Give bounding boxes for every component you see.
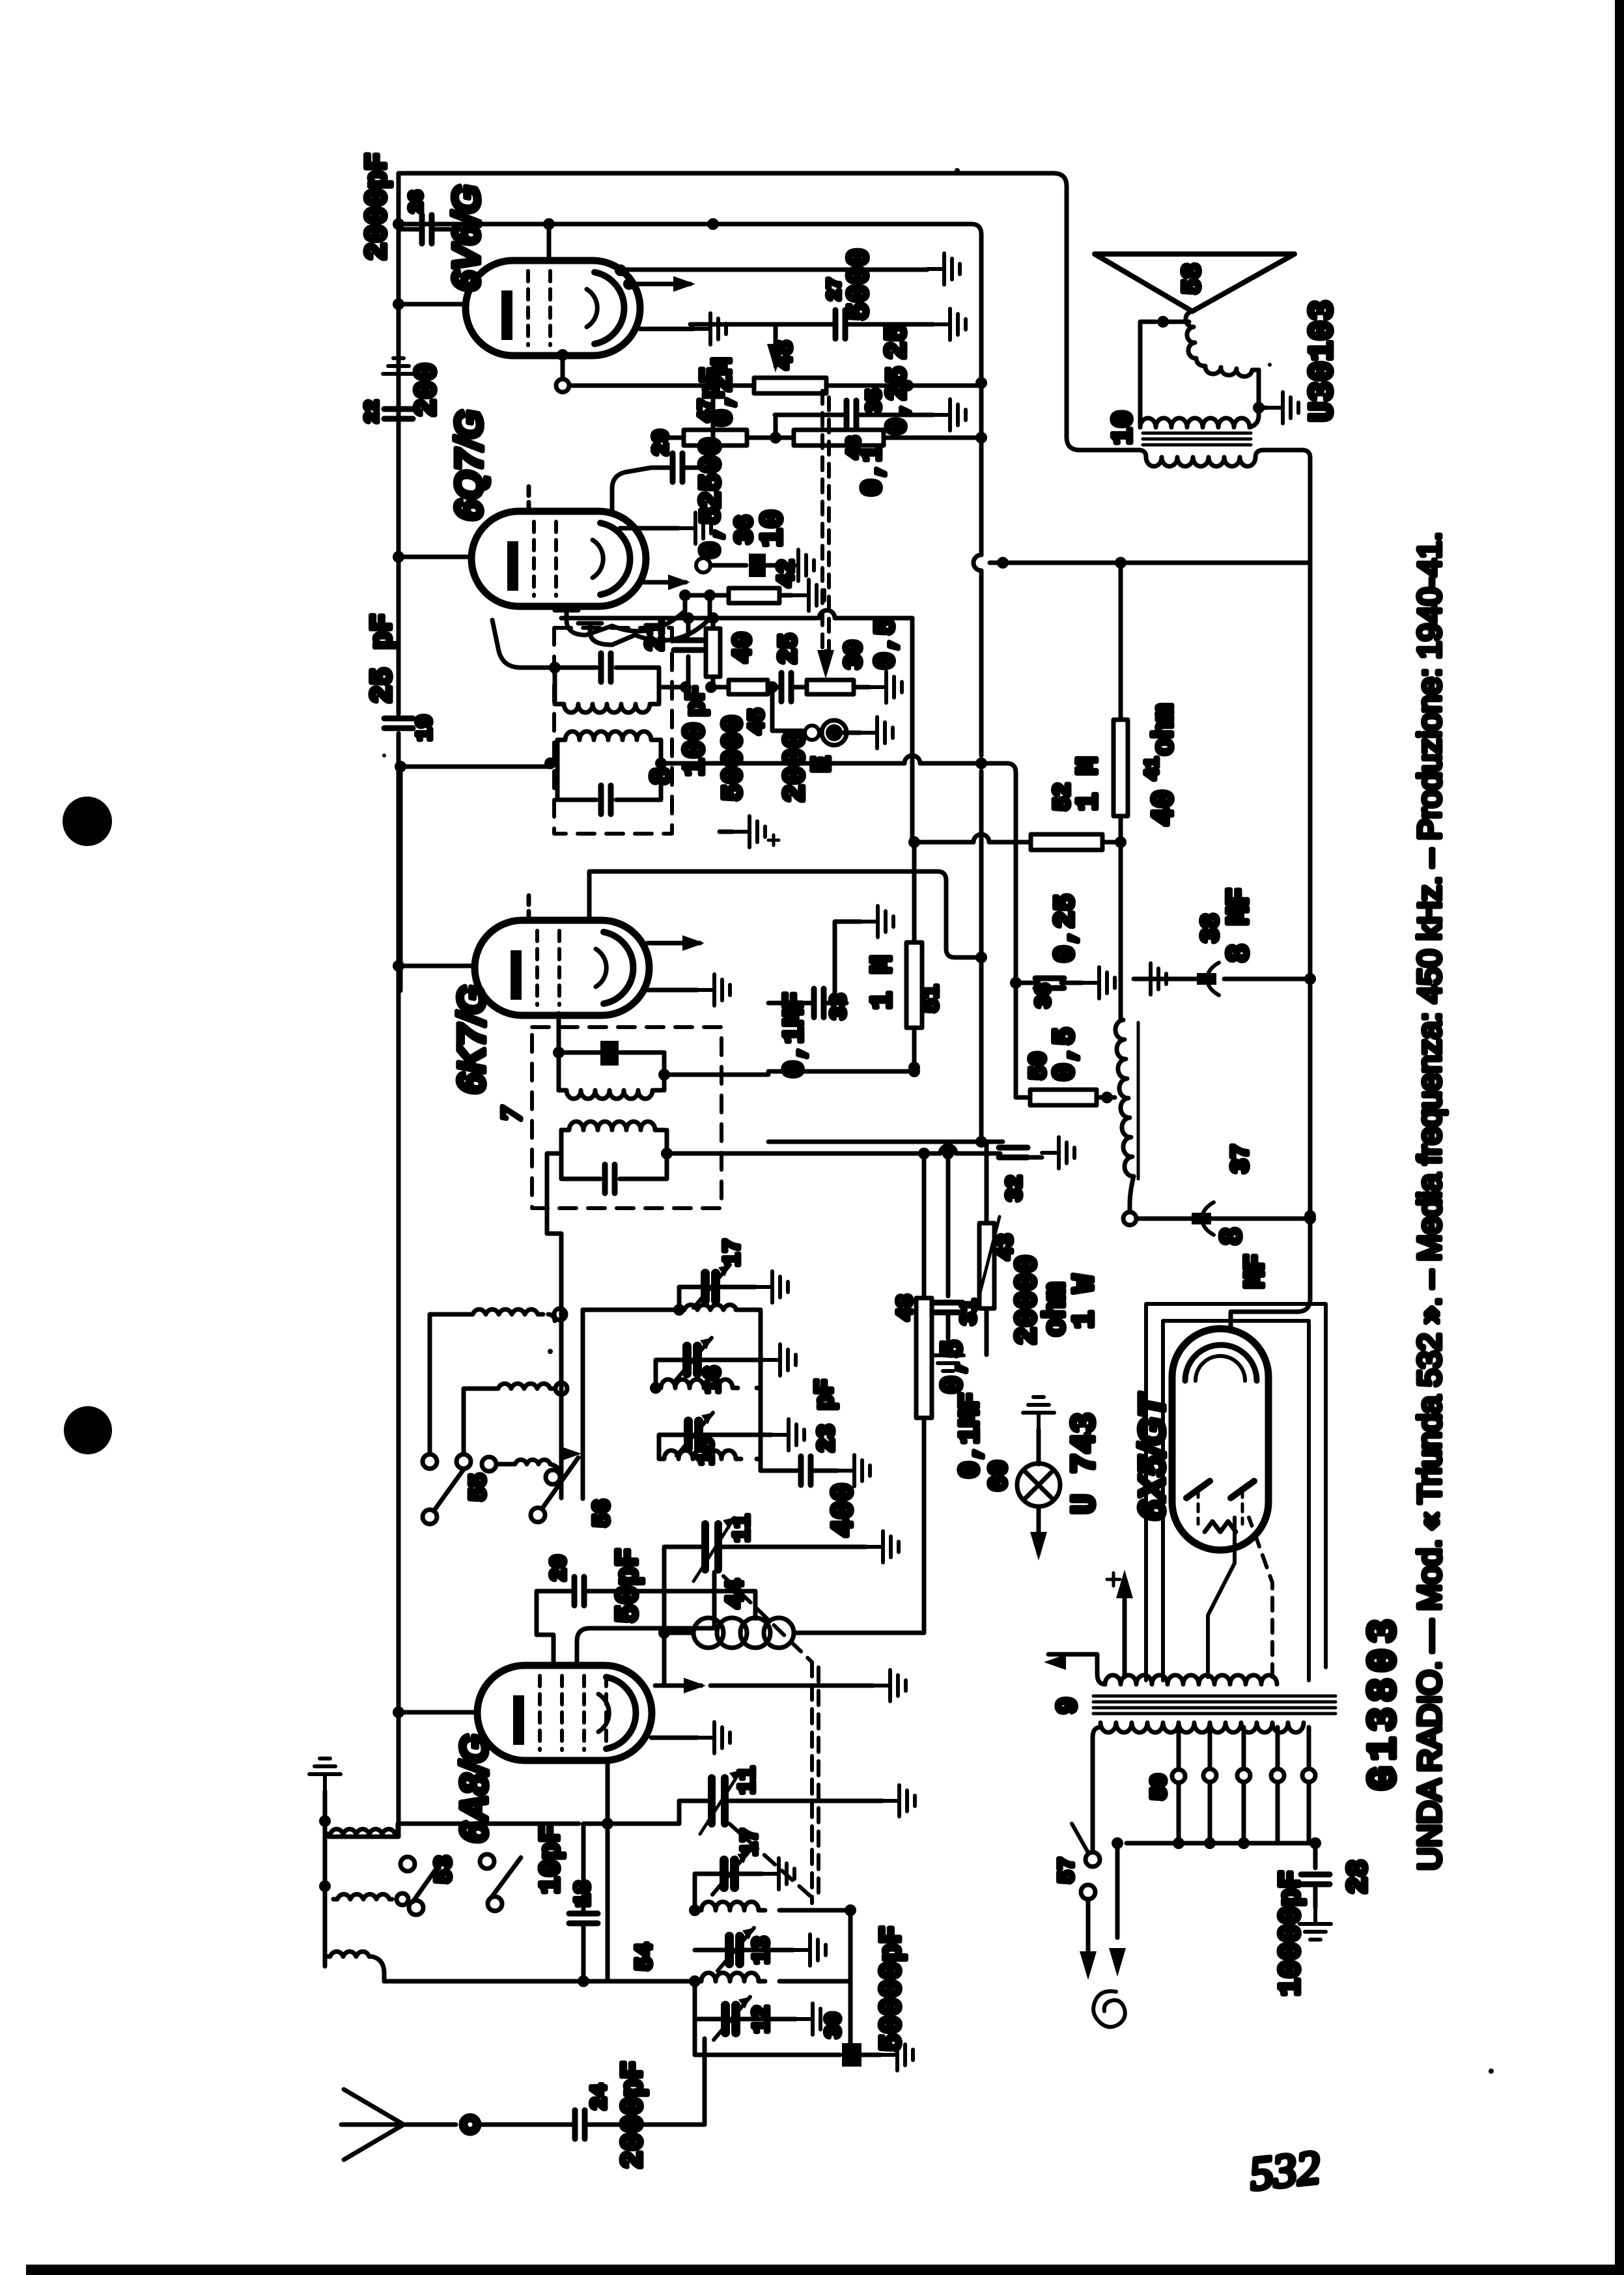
svg-text:10: 10 <box>756 509 791 547</box>
svg-text:8 MF: 8 MF <box>1222 888 1257 963</box>
svg-text:33: 33 <box>828 993 852 1020</box>
svg-text:21: 21 <box>642 620 671 651</box>
6A8 grid line down <box>606 1760 610 1981</box>
pickup jacks on AVC line <box>772 687 802 731</box>
svg-text:51: 51 <box>918 985 945 1013</box>
punch hole 1 <box>63 797 112 846</box>
row resistors 47/46 <box>654 436 684 440</box>
svg-text:48: 48 <box>771 340 799 370</box>
scan speck <box>1489 2069 1494 2074</box>
dashed enclosure 8 <box>554 628 672 834</box>
voice coil <box>1186 311 1259 376</box>
bottom edge scan bar <box>26 2265 1624 2275</box>
cap 33 0,1MF <box>768 1001 811 1006</box>
switch 55 <box>423 1510 437 1524</box>
HV secondary <box>1105 1675 1277 1684</box>
resistor 49 <box>706 629 720 677</box>
scan speck <box>955 168 960 173</box>
resistor 41 40 ohm <box>1113 720 1128 816</box>
svg-text:32: 32 <box>1003 1175 1028 1202</box>
6Q7 shield line to ground <box>620 526 679 531</box>
diode plate 1 <box>555 610 612 635</box>
trimmer 16 + ground <box>675 1338 712 1381</box>
resistor 48b 0,5 <box>922 1153 927 1298</box>
svg-text:G13803: G13803 <box>1361 1614 1407 1790</box>
svg-text:2000pF: 2000pF <box>617 2061 651 2169</box>
cap 23 400pF to ground <box>761 1469 798 1473</box>
svg-text:42: 42 <box>774 559 800 587</box>
6V6 cathode to ground <box>640 327 693 332</box>
switch 53 <box>400 1857 415 1871</box>
tank2' bottom wire to band coils <box>547 1153 561 1237</box>
dashed gang link down to resistor 39 <box>820 391 824 651</box>
primary taps <box>1179 1727 1309 1769</box>
svg-text:17: 17 <box>720 1239 746 1267</box>
resistor 51 1M <box>906 942 922 1028</box>
resistor 45 <box>711 685 729 690</box>
svg-text:200: 200 <box>410 363 444 417</box>
punch hole 2 <box>64 1406 112 1454</box>
scan speck <box>548 1349 553 1354</box>
svg-text:6X5/GT: 6X5/GT <box>1131 1392 1172 1521</box>
6A8 top stubs <box>537 1591 553 1665</box>
svg-text:23: 23 <box>814 1424 841 1452</box>
heater loop rectangles <box>1146 1304 1326 1680</box>
osc tuning cap 11b <box>712 1778 725 1824</box>
tank 2' <box>561 1130 667 1179</box>
svg-text:36: 36 <box>1032 983 1056 1008</box>
svg-text:MF: MF <box>1240 1254 1272 1288</box>
svg-text:53: 53 <box>431 1856 458 1884</box>
svg-text:54: 54 <box>632 1943 658 1971</box>
resistor 50 0,5 <box>1016 983 1030 1097</box>
wire resistor 46 to screen bus <box>884 436 980 440</box>
svg-text:20: 20 <box>548 1555 572 1581</box>
svg-text:40: 40 <box>1147 790 1181 826</box>
cap 20 50pF <box>537 1589 572 1594</box>
secondary <box>1140 418 1250 427</box>
svg-text:41: 41 <box>1142 757 1164 780</box>
trimmer 12 <box>714 1997 750 2040</box>
switch 54 <box>480 1854 494 1869</box>
antenna terminal <box>461 2115 479 2134</box>
vertical feed for coils <box>559 1237 564 1498</box>
svg-text:0,25: 0,25 <box>882 366 914 435</box>
cap 30 50000pF <box>695 2019 840 2055</box>
trimmer 15 + ground <box>677 1413 713 1456</box>
mains lead 1 <box>1086 1941 1091 1951</box>
tube 6V6 <box>466 261 640 356</box>
electrolytic cap 36/10 <box>749 554 766 577</box>
speaker triangle <box>1095 254 1295 311</box>
cap 19 25pF inline <box>384 718 413 728</box>
svg-text:9: 9 <box>1052 1697 1085 1714</box>
svg-text:100: 100 <box>679 722 712 776</box>
cap 32 <box>768 1140 981 1144</box>
svg-text:U30103: U30103 <box>1304 300 1342 422</box>
osc coils common right <box>850 1910 854 2055</box>
svg-text:400: 400 <box>827 1483 861 1537</box>
heater arrow <box>1048 1654 1105 1684</box>
coil B <box>493 1383 555 1389</box>
svg-text:28: 28 <box>1343 1859 1375 1894</box>
pilot lamp lead with arrow <box>1037 1506 1041 1553</box>
variable cap 11 (osc) <box>705 1524 718 1570</box>
oscillator trimmers/coils <box>712 1852 749 1895</box>
svg-text:0,1: 0,1 <box>857 445 889 496</box>
svg-text:6A8/G: 6A8/G <box>453 1734 496 1843</box>
svg-text:45: 45 <box>746 708 770 735</box>
6Q7 anode lead <box>399 555 471 559</box>
tank2 coil <box>557 731 661 740</box>
screen rail <box>399 224 981 234</box>
svg-text:38: 38 <box>1197 913 1225 943</box>
svg-text:1 W: 1 W <box>1068 1275 1102 1329</box>
6A8 anode lead <box>399 1710 477 1715</box>
svg-text:37: 37 <box>1227 1144 1255 1174</box>
tank 1' <box>559 1053 664 1090</box>
6V6 heater arrow <box>629 282 690 287</box>
primary <box>1139 450 1310 563</box>
tank1 coil <box>555 704 659 713</box>
+ arrow B rectified <box>1123 1596 1127 1677</box>
svg-text:57: 57 <box>1056 1857 1080 1884</box>
6K7 screen line <box>589 871 981 957</box>
trimmer 13 <box>718 1928 754 1971</box>
plate leads <box>1208 1518 1235 1677</box>
6K7 cathode ground <box>645 988 697 993</box>
svg-text:30: 30 <box>822 2012 847 2039</box>
svg-text:8: 8 <box>1216 1227 1250 1245</box>
row cap/25 <box>690 322 833 327</box>
svg-text:10pF: 10pF <box>535 1825 568 1894</box>
wire oscillator node <box>662 1591 667 1686</box>
svg-text:6Q7/G: 6Q7/G <box>448 410 490 521</box>
svg-text:0,5: 0,5 <box>870 618 903 670</box>
svg-text:U 743: U 743 <box>1066 1413 1104 1514</box>
svg-text:E: E <box>807 756 838 772</box>
svg-text:36: 36 <box>731 515 759 544</box>
cap 25 <box>781 673 791 701</box>
coil 15 <box>659 1450 741 1459</box>
B+ vertical from OT <box>1231 563 1310 1329</box>
cap 38 8MF <box>1224 977 1310 982</box>
svg-text:UNDA RADIO. — Mod. « Triunda 5: UNDA RADIO. — Mod. « Triunda 532 ». – Me… <box>1412 532 1448 1871</box>
wire volume-pot row to screen bus <box>569 384 980 388</box>
primary left lead + switch 57 <box>1093 1727 1100 1852</box>
svg-text:0,1MF: 0,1MF <box>779 992 811 1078</box>
cap 22 200 to ground <box>397 422 401 427</box>
resistor 43 20000 ohm 1W (slashed) <box>985 1142 989 1223</box>
svg-text:pF: pF <box>697 367 726 399</box>
svg-text:44: 44 <box>722 1579 750 1609</box>
tank 2: coil + cap <box>557 740 661 800</box>
resistor 42 <box>729 588 779 603</box>
resistor 39 <box>807 680 854 694</box>
line from AVC/E to right <box>977 763 1016 834</box>
padder coil 44 <box>664 1631 847 1635</box>
cap 31 + gnd <box>946 1153 951 1296</box>
right joins of RF coils <box>736 1310 761 1471</box>
capacitor C28 10000pF <box>1301 1874 1330 1884</box>
svg-text:10: 10 <box>1108 410 1140 445</box>
svg-text:50pF: 50pF <box>611 1548 647 1623</box>
secondary left lead up <box>1140 322 1156 427</box>
anode supply line (vertical) <box>397 173 401 714</box>
svg-text:24: 24 <box>588 2084 613 2110</box>
tank 1: coil + cap <box>555 668 659 704</box>
volume pot 48 <box>774 324 778 366</box>
AVC vertical continues <box>329 767 400 1837</box>
svg-text:29: 29 <box>650 429 675 456</box>
screen bus down <box>979 234 984 1142</box>
svg-text:25: 25 <box>880 324 914 360</box>
svg-text:0,5: 0,5 <box>1048 1027 1082 1081</box>
diode load row <box>612 595 685 631</box>
tank2 leads <box>400 763 550 767</box>
svg-text:2000pF: 2000pF <box>361 152 395 261</box>
svg-text:59: 59 <box>1148 1773 1173 1800</box>
filament <box>1205 1521 1236 1532</box>
antenna coils <box>309 1759 341 1791</box>
svg-text:11: 11 <box>735 1766 761 1794</box>
IF box ground <box>720 830 733 834</box>
resistor 52 <box>1031 834 1102 850</box>
svg-text:7: 7 <box>496 1106 527 1122</box>
svg-text:532: 532 <box>1247 2141 1323 2200</box>
right edge scan bar <box>1615 0 1624 2275</box>
ant coil 3 <box>328 1951 372 1957</box>
coil 17 <box>679 1305 740 1310</box>
svg-text:0,1MF: 0,1MF <box>955 1392 987 1478</box>
primary <box>1100 1723 1304 1732</box>
common + cap 28 <box>1127 1841 1315 1846</box>
cap 37 8MF <box>1136 1217 1310 1221</box>
diode plates <box>1186 1481 1254 1498</box>
svg-text:55: 55 <box>466 1473 492 1501</box>
6A8 heater arrow <box>655 1684 701 1688</box>
cap 36 0,25 to ground <box>1014 834 1018 983</box>
ground at voice coil <box>1253 402 1265 414</box>
6A8 cathode gnd <box>651 1736 697 1740</box>
cap 24 2000pF <box>575 2110 585 2139</box>
svg-text:22: 22 <box>362 400 384 423</box>
svg-text:1 M: 1 M <box>1072 757 1106 811</box>
coil A <box>466 1309 543 1314</box>
capacitor 26 2000pF <box>399 227 419 232</box>
switch 56 <box>531 1508 545 1522</box>
core <box>1093 1695 1336 1698</box>
antenna symbol <box>341 2089 404 2160</box>
6K7 heater arrow <box>647 941 700 946</box>
jack circle <box>696 558 710 572</box>
svg-text:pF: pF <box>682 685 712 716</box>
svg-text:39: 39 <box>841 640 869 670</box>
6K7 anode lead <box>399 964 475 968</box>
plug curl <box>1093 1991 1125 2027</box>
svg-text:11: 11 <box>729 1514 756 1542</box>
svg-text:0,5: 0,5 <box>936 1340 970 1394</box>
6K7 grid top-cap dash <box>527 894 531 920</box>
scan speck <box>382 754 386 757</box>
diode plate 2 <box>578 623 635 645</box>
extra grids for 6A8 <box>582 1676 586 1750</box>
core <box>1143 432 1251 435</box>
ant coil 2 <box>333 1894 392 1899</box>
coil 16 <box>656 1379 738 1388</box>
svg-text:25: 25 <box>775 633 804 664</box>
svg-text:10000pF: 10000pF <box>1274 1871 1308 1996</box>
B+ junction line <box>990 561 1310 565</box>
tube 6Q7 <box>471 511 646 606</box>
svg-text:58: 58 <box>1179 263 1208 294</box>
svg-text:19: 19 <box>413 714 438 741</box>
6Q7 heater arrow <box>641 580 686 585</box>
6Q7 grid top stub <box>527 483 531 511</box>
row cap 35 <box>775 413 844 417</box>
tube 6A8 <box>477 1665 652 1760</box>
svg-text:50000pF: 50000pF <box>875 1926 909 2052</box>
svg-text:25 pF: 25 pF <box>366 614 400 703</box>
bottom wire of switches <box>384 1979 695 1984</box>
svg-text:48: 48 <box>894 1294 919 1321</box>
osc coil E <box>695 1973 765 1981</box>
svg-text:56: 56 <box>589 1499 616 1527</box>
primary tap leads to common wire <box>1179 1783 1309 1843</box>
row 5000/27 <box>621 268 927 272</box>
tank1 lead to diode <box>492 620 555 668</box>
cap 29 2500pF coupling <box>612 468 670 513</box>
osc coil D <box>695 1902 765 1910</box>
svg-text:2500: 2500 <box>695 438 729 509</box>
svg-text:12: 12 <box>749 2005 776 2033</box>
6V6 anode lead <box>399 302 466 307</box>
6V6 screen stub to rail <box>547 224 552 261</box>
tank1' grid lead up into 6K7 <box>557 1013 561 1053</box>
svg-text:49: 49 <box>729 632 759 663</box>
scan speck <box>1268 363 1272 367</box>
svg-text:0,5: 0,5 <box>695 507 728 559</box>
gang line (dashed) <box>723 1576 812 1662</box>
svg-text:1 M: 1 M <box>866 955 900 1010</box>
ant coil 1 <box>325 1829 398 1834</box>
svg-text:17: 17 <box>737 1828 764 1856</box>
AVC line below diodes <box>561 616 912 621</box>
tank1' to cathode node <box>664 1067 914 1075</box>
link tank1 to detector row <box>659 685 686 690</box>
svg-text:60: 60 <box>985 1460 1015 1491</box>
svg-text:pF: pF <box>811 1379 841 1410</box>
svg-text:0,25: 0,25 <box>1050 894 1082 963</box>
trimmer 17 + ground <box>693 1265 730 1308</box>
coil C <box>511 1460 550 1464</box>
svg-text:26: 26 <box>406 190 428 214</box>
plate rail to output transformer <box>399 173 1139 450</box>
node dots on anode line <box>393 218 404 230</box>
tank2' output line <box>667 1152 1000 1156</box>
second mains lead <box>1115 1843 1120 1938</box>
svg-text:13: 13 <box>749 1936 776 1964</box>
H4 row to resistor 52 <box>912 842 917 887</box>
svg-text:ohm: ohm <box>1149 704 1181 756</box>
cap 21 <box>686 657 691 687</box>
field coil / choke <box>1119 842 1123 1020</box>
tube 6K7 <box>475 920 649 1015</box>
